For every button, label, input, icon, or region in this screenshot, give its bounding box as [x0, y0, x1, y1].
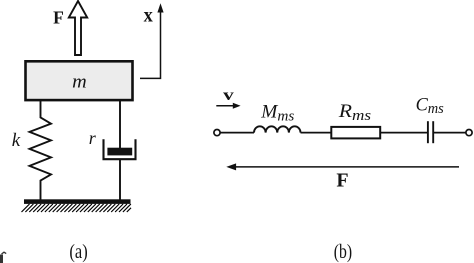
wire inductor to resistor	[301, 132, 332, 134]
wire left terminal to inductor	[220, 132, 254, 134]
wire resistor to capacitor	[381, 132, 427, 134]
svg-text:k: k	[12, 130, 21, 151]
inductor Mms	[254, 126, 301, 132]
svg-text:x: x	[144, 5, 153, 27]
damper r rod	[119, 101, 121, 149]
svg-text:F: F	[53, 7, 64, 27]
svg-text:(b): (b)	[334, 241, 352, 263]
damper r cylinder cup	[104, 139, 136, 159]
spring k	[30, 101, 52, 200]
ground bar	[24, 199, 131, 204]
stray clipped glyph bottom-left	[0, 252, 6, 263]
terminal node right	[466, 130, 472, 136]
force arrow F (circuit, pointing left)	[226, 163, 459, 170]
damper lower wire	[119, 159, 121, 200]
wire capacitor to right terminal	[433, 132, 466, 134]
velocity arrow	[216, 103, 240, 109]
damper r piston	[107, 148, 132, 156]
force arrow F (hollow, pointing up)	[69, 1, 87, 55]
mass m (block)	[26, 61, 133, 100]
terminal node left	[214, 130, 220, 136]
svg-text:r: r	[89, 128, 97, 148]
resistor Rms	[331, 127, 380, 138]
capacitor Cms plate right	[432, 121, 434, 143]
ground hatching	[22, 204, 132, 212]
svg-text:(a): (a)	[69, 241, 87, 263]
x axis arrow	[140, 11, 161, 78]
svg-text:F: F	[336, 170, 348, 192]
svg-text:v: v	[223, 87, 234, 104]
svg-text:m: m	[72, 71, 87, 92]
capacitor Cms plate left	[427, 121, 429, 143]
